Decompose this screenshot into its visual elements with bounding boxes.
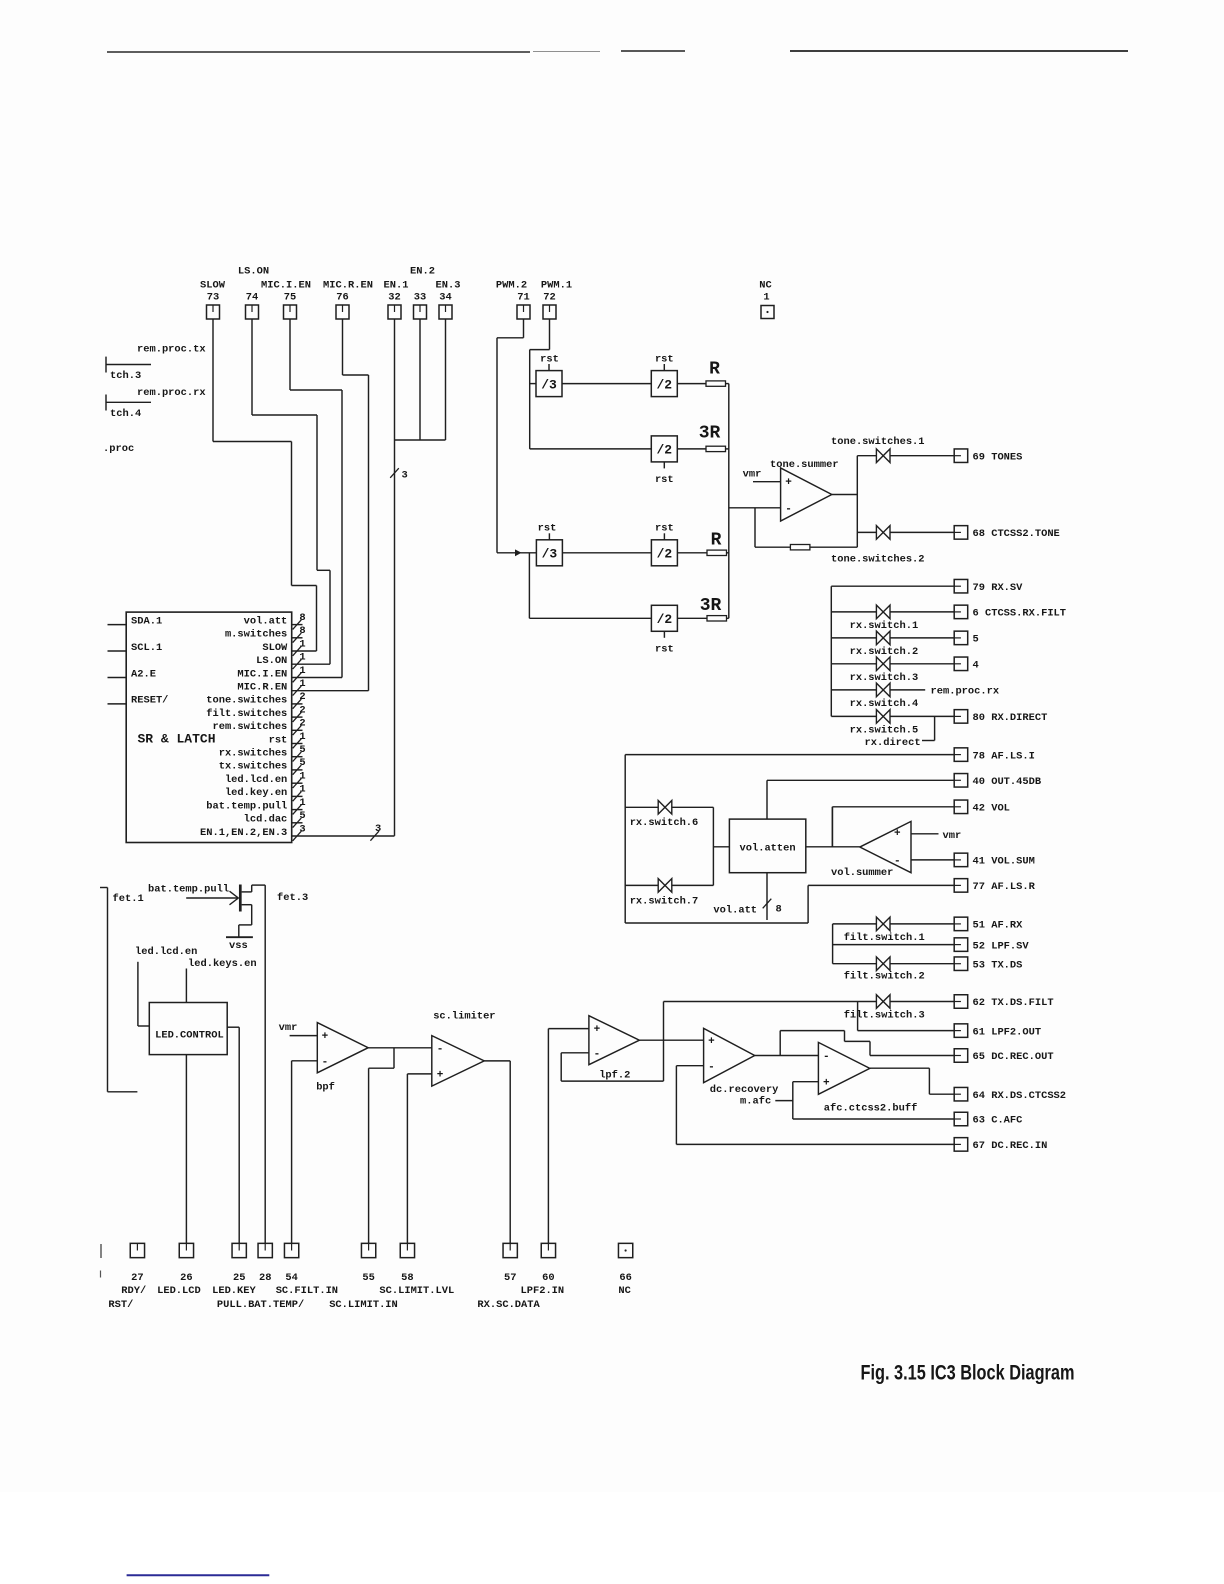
svg-text:A2.E: A2.E bbox=[131, 668, 156, 680]
svg-text:1: 1 bbox=[299, 771, 305, 783]
svg-text:led.key.en: led.key.en bbox=[225, 787, 287, 799]
svg-text:MIC.R.EN: MIC.R.EN bbox=[323, 279, 373, 291]
svg-text:rem.proc.rx: rem.proc.rx bbox=[931, 686, 1000, 698]
svg-text:NC: NC bbox=[618, 1285, 630, 1297]
svg-text:69 TONES: 69 TONES bbox=[973, 451, 1023, 463]
svg-text:LS.ON: LS.ON bbox=[256, 655, 287, 667]
svg-text:80 RX.DIRECT: 80 RX.DIRECT bbox=[973, 712, 1048, 724]
svg-text:28: 28 bbox=[259, 1272, 271, 1284]
svg-text:2: 2 bbox=[299, 704, 305, 716]
svg-text:+: + bbox=[594, 1024, 601, 1036]
svg-text:5: 5 bbox=[299, 810, 305, 822]
svg-text:25: 25 bbox=[233, 1272, 245, 1284]
svg-text:tone.switches.1: tone.switches.1 bbox=[831, 436, 925, 448]
svg-text:8: 8 bbox=[299, 612, 305, 624]
svg-text:3R: 3R bbox=[699, 424, 721, 444]
svg-text:MIC.R.EN: MIC.R.EN bbox=[237, 682, 287, 694]
svg-text:rst: rst bbox=[538, 523, 557, 535]
svg-text:5: 5 bbox=[299, 757, 305, 769]
svg-text:40 OUT.45DB: 40 OUT.45DB bbox=[973, 776, 1042, 788]
svg-text:Fig. 3.15 IC3 Block Diagram: Fig. 3.15 IC3 Block Diagram bbox=[861, 1361, 1075, 1385]
svg-text:m.afc: m.afc bbox=[740, 1096, 771, 1108]
svg-text:vol.att: vol.att bbox=[244, 615, 288, 627]
svg-text:vol.summer: vol.summer bbox=[831, 867, 893, 879]
svg-text:bat.temp.pull: bat.temp.pull bbox=[148, 884, 229, 896]
svg-text:LED.CONTROL: LED.CONTROL bbox=[155, 1030, 224, 1042]
svg-text:SLOW: SLOW bbox=[200, 279, 226, 291]
svg-text:rem.proc.rx: rem.proc.rx bbox=[137, 387, 206, 399]
svg-text:34: 34 bbox=[439, 291, 451, 303]
svg-text:61 LPF2.OUT: 61 LPF2.OUT bbox=[973, 1026, 1042, 1038]
svg-text:SR & LATCH: SR & LATCH bbox=[138, 732, 216, 747]
svg-text:rem.proc.tx: rem.proc.tx bbox=[137, 344, 206, 356]
svg-text:60: 60 bbox=[542, 1272, 554, 1284]
svg-text:65 DC.REC.OUT: 65 DC.REC.OUT bbox=[973, 1051, 1054, 1063]
svg-text:lcd.dac: lcd.dac bbox=[244, 814, 288, 826]
svg-text:8: 8 bbox=[299, 625, 305, 637]
svg-text:tone.summer: tone.summer bbox=[770, 459, 839, 471]
svg-text:RX.SC.DATA: RX.SC.DATA bbox=[477, 1299, 540, 1311]
svg-text:55: 55 bbox=[362, 1272, 374, 1284]
svg-text:filt.switches: filt.switches bbox=[206, 708, 287, 720]
svg-text:.proc: .proc bbox=[103, 443, 134, 455]
svg-text:/2: /2 bbox=[656, 443, 672, 458]
svg-text:rem.switches: rem.switches bbox=[212, 721, 287, 733]
svg-text:1: 1 bbox=[299, 678, 305, 690]
svg-text:1: 1 bbox=[299, 652, 305, 664]
svg-text:42 VOL: 42 VOL bbox=[973, 803, 1010, 815]
svg-text:rx.switch.1: rx.switch.1 bbox=[850, 620, 919, 632]
svg-text:/3: /3 bbox=[541, 377, 557, 392]
svg-text:-: - bbox=[708, 1061, 715, 1073]
svg-text:EN.1: EN.1 bbox=[384, 279, 409, 291]
svg-text:26: 26 bbox=[180, 1272, 192, 1284]
svg-text:tch.3: tch.3 bbox=[110, 370, 141, 382]
svg-text:fet.1: fet.1 bbox=[113, 893, 144, 905]
svg-text:67 DC.REC.IN: 67 DC.REC.IN bbox=[973, 1140, 1048, 1152]
svg-text:tone.switches.2: tone.switches.2 bbox=[831, 554, 925, 566]
svg-text:58: 58 bbox=[401, 1272, 413, 1284]
svg-text:78 AF.LS.I: 78 AF.LS.I bbox=[973, 750, 1035, 762]
svg-text:rx.switch.5: rx.switch.5 bbox=[850, 725, 919, 737]
svg-text:SDA.1: SDA.1 bbox=[131, 615, 162, 627]
svg-text:77 AF.LS.R: 77 AF.LS.R bbox=[973, 881, 1036, 893]
svg-text:68 CTCSS2.TONE: 68 CTCSS2.TONE bbox=[973, 528, 1060, 540]
svg-text:rst: rst bbox=[655, 354, 674, 366]
svg-text:-: - bbox=[437, 1043, 444, 1055]
svg-text:57: 57 bbox=[504, 1272, 516, 1284]
svg-text:rst: rst bbox=[269, 734, 288, 746]
svg-text:+: + bbox=[437, 1070, 444, 1082]
svg-text:5: 5 bbox=[299, 744, 305, 756]
svg-text:33: 33 bbox=[414, 291, 426, 303]
svg-text:LS.ON: LS.ON bbox=[238, 266, 269, 278]
svg-text:8: 8 bbox=[776, 904, 782, 916]
svg-text:MIC.I.EN: MIC.I.EN bbox=[261, 279, 311, 291]
svg-text:vol.atten: vol.atten bbox=[740, 843, 796, 855]
svg-text:vmr: vmr bbox=[743, 468, 762, 480]
svg-text:/2: /2 bbox=[657, 612, 673, 627]
svg-text:+: + bbox=[823, 1077, 830, 1089]
svg-text:NC: NC bbox=[759, 280, 771, 292]
svg-text:fet.3: fet.3 bbox=[277, 892, 308, 904]
svg-text:led.lcd.en: led.lcd.en bbox=[225, 774, 287, 786]
svg-text:rx.switches: rx.switches bbox=[219, 748, 288, 760]
svg-text:75: 75 bbox=[284, 291, 296, 303]
svg-text:74: 74 bbox=[246, 291, 258, 303]
svg-text:/3: /3 bbox=[542, 547, 558, 562]
svg-text:RESET/: RESET/ bbox=[131, 695, 168, 707]
svg-text:vmr: vmr bbox=[943, 830, 962, 842]
svg-text:rx.switch.3: rx.switch.3 bbox=[850, 672, 919, 684]
svg-text:4: 4 bbox=[973, 660, 979, 672]
svg-text:PWM.2: PWM.2 bbox=[496, 279, 527, 291]
svg-text:vmr: vmr bbox=[279, 1022, 298, 1034]
svg-text:sc.limiter: sc.limiter bbox=[433, 1011, 495, 1023]
svg-text:SCL.1: SCL.1 bbox=[131, 642, 162, 654]
svg-text:63 C.AFC: 63 C.AFC bbox=[973, 1115, 1023, 1127]
svg-text:rst: rst bbox=[655, 474, 674, 486]
svg-text:71: 71 bbox=[517, 291, 529, 303]
svg-text:/2: /2 bbox=[656, 377, 672, 392]
svg-text:52 LPF.SV: 52 LPF.SV bbox=[973, 940, 1030, 952]
svg-text:RDY/: RDY/ bbox=[121, 1285, 146, 1297]
svg-text:73: 73 bbox=[207, 291, 219, 303]
svg-text:32: 32 bbox=[388, 291, 400, 303]
svg-text:R: R bbox=[711, 531, 722, 551]
svg-text:SC.LIMIT.IN: SC.LIMIT.IN bbox=[329, 1299, 398, 1311]
svg-text:54: 54 bbox=[285, 1272, 297, 1284]
svg-text:+: + bbox=[785, 477, 792, 489]
svg-text:-: - bbox=[322, 1056, 329, 1068]
svg-text:53 TX.DS: 53 TX.DS bbox=[973, 959, 1023, 971]
svg-text:3: 3 bbox=[402, 470, 408, 482]
svg-text:lpf.2: lpf.2 bbox=[599, 1070, 630, 1082]
svg-text:41 VOL.SUM: 41 VOL.SUM bbox=[973, 856, 1035, 868]
svg-text:2: 2 bbox=[299, 718, 305, 730]
svg-text:51 AF.RX: 51 AF.RX bbox=[973, 920, 1024, 932]
svg-text:+: + bbox=[894, 828, 901, 840]
svg-text:76: 76 bbox=[336, 291, 348, 303]
svg-text:LPF2.IN: LPF2.IN bbox=[521, 1285, 565, 1297]
svg-text:rst: rst bbox=[655, 523, 674, 535]
svg-text:+: + bbox=[322, 1031, 329, 1043]
svg-text:3R: 3R bbox=[700, 596, 722, 616]
svg-text:+: + bbox=[708, 1036, 715, 1048]
svg-text:tone.switches: tone.switches bbox=[206, 695, 287, 707]
svg-text:afc.ctcss2.buff: afc.ctcss2.buff bbox=[824, 1103, 918, 1115]
svg-text:SC.LIMIT.LVL: SC.LIMIT.LVL bbox=[379, 1285, 454, 1297]
svg-text:27: 27 bbox=[131, 1272, 143, 1284]
svg-text:led.lcd.en: led.lcd.en bbox=[135, 946, 197, 958]
svg-text:vss: vss bbox=[229, 940, 248, 952]
svg-text:filt.switch.2: filt.switch.2 bbox=[844, 971, 925, 983]
svg-text:1: 1 bbox=[299, 797, 305, 809]
svg-text:LED.LCD: LED.LCD bbox=[157, 1285, 201, 1297]
svg-text:1: 1 bbox=[299, 731, 305, 743]
svg-text:66: 66 bbox=[619, 1272, 631, 1284]
svg-text:filt.switch.1: filt.switch.1 bbox=[844, 932, 925, 944]
svg-text:EN.1,EN.2,EN.3: EN.1,EN.2,EN.3 bbox=[200, 827, 287, 839]
svg-text:SC.FILT.IN: SC.FILT.IN bbox=[276, 1285, 338, 1297]
svg-text:rx.direct: rx.direct bbox=[865, 737, 921, 749]
svg-text:-: - bbox=[785, 503, 792, 515]
svg-text:RST/: RST/ bbox=[108, 1299, 133, 1311]
svg-text:62 TX.DS.FILT: 62 TX.DS.FILT bbox=[973, 997, 1054, 1009]
svg-text:tx.switches: tx.switches bbox=[219, 761, 288, 773]
svg-text:64 RX.DS.CTCSS2: 64 RX.DS.CTCSS2 bbox=[973, 1090, 1067, 1102]
svg-text:m.switches: m.switches bbox=[225, 629, 287, 641]
svg-text:EN.3: EN.3 bbox=[436, 279, 461, 291]
svg-text:2: 2 bbox=[299, 691, 305, 703]
svg-text:79 RX.SV: 79 RX.SV bbox=[973, 582, 1024, 594]
svg-text:R: R bbox=[709, 360, 720, 380]
svg-text:rx.switch.7: rx.switch.7 bbox=[630, 895, 699, 907]
svg-text:6 CTCSS.RX.FILT: 6 CTCSS.RX.FILT bbox=[973, 608, 1067, 620]
svg-text:1: 1 bbox=[299, 665, 305, 677]
svg-text:3: 3 bbox=[299, 823, 305, 835]
svg-text:led.keys.en: led.keys.en bbox=[188, 958, 257, 970]
svg-text:PULL.BAT.TEMP/: PULL.BAT.TEMP/ bbox=[217, 1299, 304, 1311]
svg-text:vol.att: vol.att bbox=[713, 905, 757, 917]
svg-text:1: 1 bbox=[299, 638, 305, 650]
svg-text:LED.KEY: LED.KEY bbox=[212, 1285, 256, 1297]
svg-text:PWM.1: PWM.1 bbox=[541, 279, 572, 291]
svg-text:1: 1 bbox=[299, 784, 305, 796]
svg-text:/2: /2 bbox=[657, 547, 673, 562]
svg-text:rx.switch.6: rx.switch.6 bbox=[630, 817, 699, 829]
svg-text:SLOW: SLOW bbox=[262, 642, 288, 654]
svg-text:EN.2: EN.2 bbox=[410, 266, 435, 278]
svg-text:-: - bbox=[823, 1051, 830, 1063]
svg-text:rx.switch.4: rx.switch.4 bbox=[850, 698, 919, 710]
svg-text:-: - bbox=[894, 855, 901, 867]
svg-text:MIC.I.EN: MIC.I.EN bbox=[237, 668, 287, 680]
svg-text:rst: rst bbox=[540, 354, 559, 366]
svg-text:tch.4: tch.4 bbox=[110, 408, 141, 420]
svg-text:rx.switch.2: rx.switch.2 bbox=[850, 646, 919, 658]
svg-text:-: - bbox=[594, 1048, 601, 1060]
svg-text:5: 5 bbox=[973, 634, 979, 646]
svg-text:3: 3 bbox=[375, 823, 381, 835]
svg-text:rst: rst bbox=[655, 643, 674, 655]
svg-text:1: 1 bbox=[763, 291, 769, 303]
svg-text:bpf: bpf bbox=[316, 1082, 335, 1094]
svg-text:dc.recovery: dc.recovery bbox=[710, 1084, 779, 1096]
svg-text:72: 72 bbox=[543, 291, 555, 303]
svg-text:bat.temp.pull: bat.temp.pull bbox=[206, 800, 287, 812]
svg-text:filt.switch.3: filt.switch.3 bbox=[844, 1010, 925, 1022]
